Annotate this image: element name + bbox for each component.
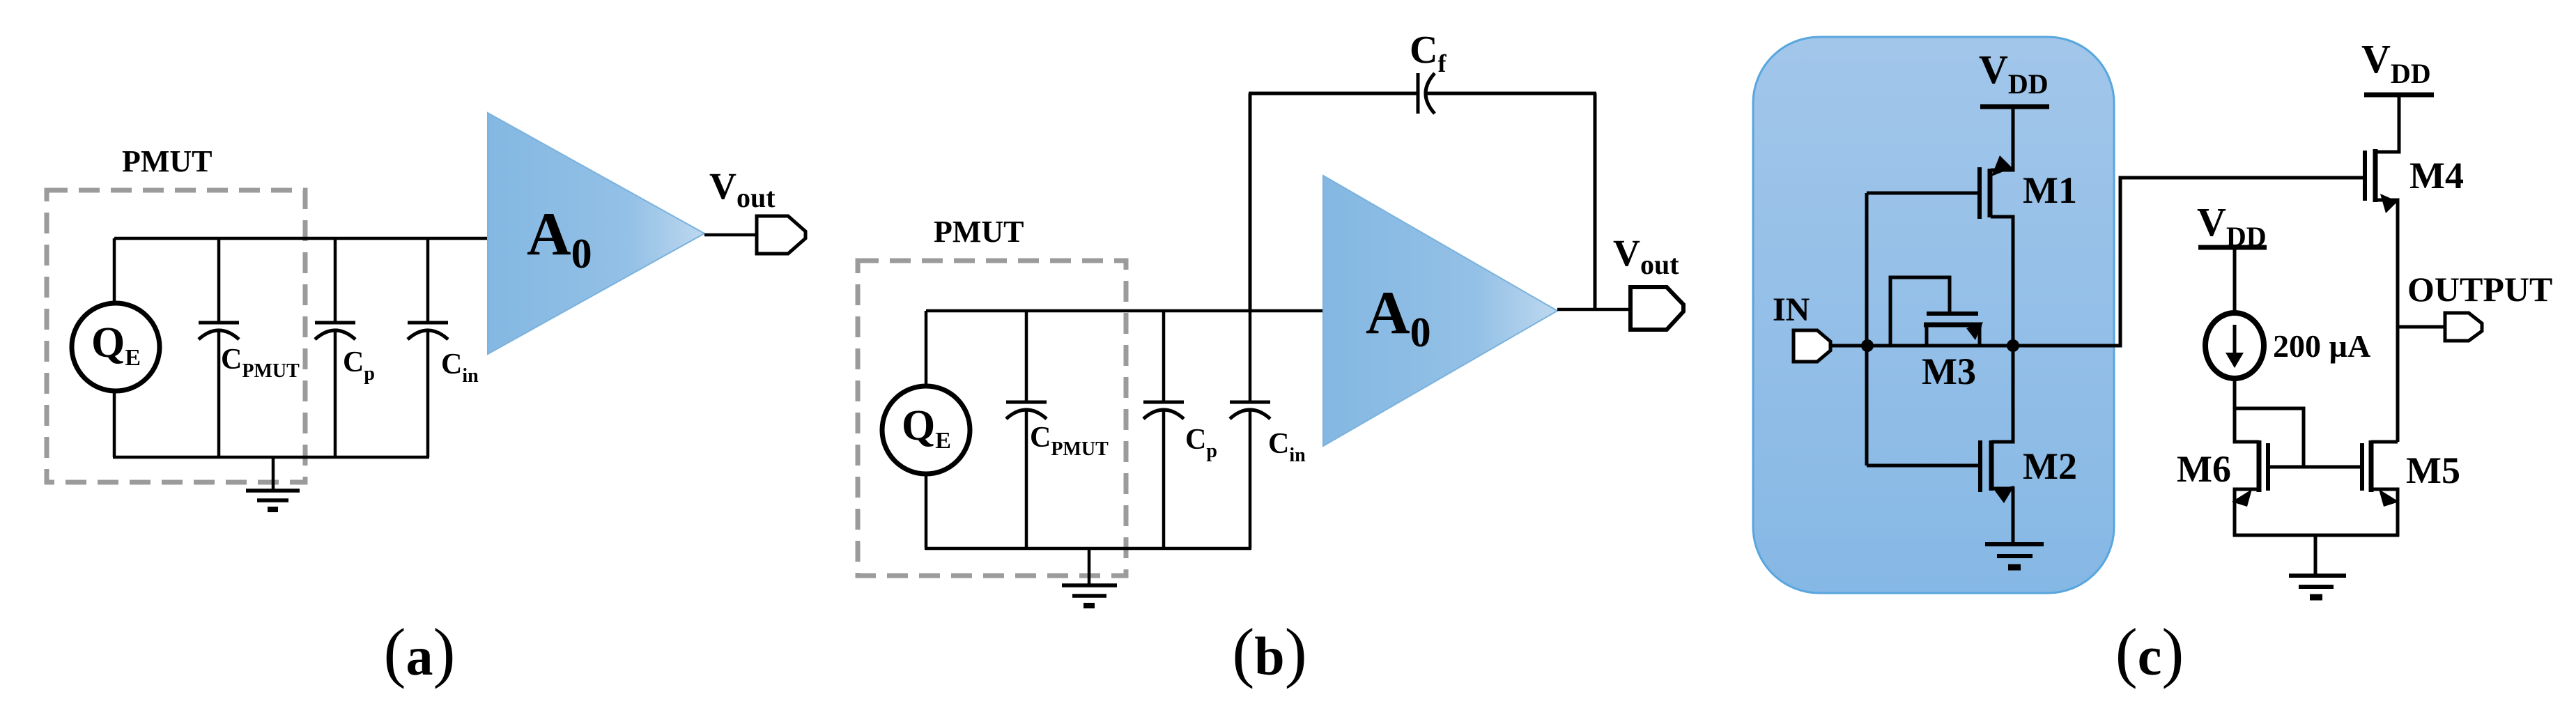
wire: bottom rail (b) [925, 547, 1251, 551]
transistor M3 gate loop [1890, 277, 1950, 344]
svg-text:Vout: Vout [1613, 232, 1679, 280]
inverter block blue background [1753, 37, 2114, 593]
wire: QE source top lead (a) [113, 238, 116, 302]
svg-text:(b): (b) [1232, 615, 1306, 689]
node dot (output node) [2007, 339, 2019, 352]
PMUT dashed box (b) [858, 261, 1126, 576]
capacitor C_PMUT (b) [1006, 311, 1047, 548]
capacitor Cin (b) [1230, 311, 1270, 548]
svg-text:Cp: Cp [343, 346, 375, 385]
wire: IN to node [1830, 344, 2014, 348]
transistor M5 [2362, 440, 2399, 537]
wire: diode connection (M6) [2235, 408, 2304, 467]
capacitor Cin (a) [408, 238, 448, 457]
wire: gate wire M6-M5 [2268, 466, 2362, 469]
svg-text:Cin: Cin [1268, 428, 1306, 466]
wire: bottom rail (a) [113, 456, 429, 459]
wire: output (b) [1557, 308, 1630, 312]
svg-text:PMUT: PMUT [122, 144, 213, 178]
capacitor Cf (b) [1418, 73, 1435, 114]
port IN [1794, 330, 1830, 362]
transistor M4 [2365, 149, 2398, 442]
port V_out (b) [1630, 287, 1683, 330]
svg-text:Cin: Cin [441, 348, 479, 387]
svg-text:200 µA: 200 µA [2273, 328, 2370, 364]
svg-text:Cf: Cf [1410, 29, 1447, 77]
port OUTPUT [2445, 313, 2482, 341]
ground (tail) [2289, 535, 2346, 597]
svg-text:M1: M1 [2023, 169, 2077, 211]
wire: output (a) [704, 233, 757, 237]
svg-text:OUTPUT: OUTPUT [2407, 270, 2552, 309]
transistor M1 [1980, 155, 2013, 346]
svg-text:(a): (a) [384, 615, 456, 689]
svg-text:PMUT: PMUT [934, 215, 1024, 249]
svg-text:(c): (c) [2115, 615, 2184, 689]
wire: VDD to M1 source [1991, 107, 2013, 170]
power VDD (M4) bar [2364, 93, 2434, 98]
wire: feedback top left segment (b) [1249, 92, 1418, 95]
ground (M2) [1985, 544, 2044, 567]
current source I1 [2205, 313, 2264, 378]
svg-text:CPMUT: CPMUT [221, 344, 300, 382]
wire: gate vertical (IN node) [1865, 193, 1869, 466]
wire: current source to M6 drain [2235, 378, 2259, 442]
svg-text:IN: IN [1773, 291, 1810, 328]
ground (a) [246, 457, 300, 509]
svg-text:M3: M3 [1922, 351, 1976, 392]
capacitor C_PMUT (a) [199, 238, 239, 457]
PMUT dashed box (a) [47, 190, 305, 482]
port V_out (a) [757, 216, 805, 254]
op-amp A0 (b) [1323, 176, 1557, 446]
power VDD (inverter) bar [1980, 105, 2049, 109]
wire: tail rail (M5-M6) [2233, 534, 2399, 537]
power VDD (current source) bar [2198, 245, 2267, 250]
wire: QE source top lead (b) [925, 311, 928, 385]
svg-text:VDD: VDD [2361, 36, 2431, 89]
svg-text:Cp: Cp [1185, 424, 1217, 462]
wire: feedback top right segment (b) [1426, 92, 1596, 95]
capacitor Cp (b) [1143, 311, 1184, 548]
transistor M2 [1980, 346, 2014, 546]
wire: OUTPUT [2398, 325, 2445, 329]
wire: M1 gate lead [1867, 192, 1980, 195]
wire: feedback tap vertical (b) [1249, 93, 1252, 311]
ground (b) [1062, 548, 1117, 606]
charge source QE (a) [72, 303, 160, 391]
svg-text:M6: M6 [2177, 448, 2231, 490]
wire: top rail (a) [114, 237, 488, 240]
charge source QE (b) [882, 386, 970, 474]
wire: M2 gate lead [1867, 464, 1980, 468]
wire: QE source bottom lead (a) [113, 393, 116, 457]
transistor M6 [2232, 440, 2268, 537]
wire: feedback right vertical (b) [1594, 93, 1597, 311]
svg-text:CPMUT: CPMUT [1030, 422, 1109, 460]
wire: VDD to M4 source [2376, 95, 2399, 152]
svg-text:M2: M2 [2023, 445, 2077, 487]
wire: top rail (b) [926, 309, 1323, 313]
wire: VDD to current source [2233, 247, 2237, 315]
svg-text:M5: M5 [2406, 449, 2460, 491]
node dot (IN node) [1861, 339, 1874, 352]
svg-text:VDD: VDD [2197, 199, 2267, 252]
transistor M3 [1924, 314, 1983, 346]
wire: output node to M4 gate [2013, 178, 2365, 346]
op-amp A0 (a) [488, 113, 704, 354]
capacitor Cp (a) [315, 238, 355, 457]
wire: QE source bottom lead (b) [925, 476, 928, 548]
svg-text:Vout: Vout [709, 165, 776, 213]
svg-text:M4: M4 [2409, 155, 2464, 197]
